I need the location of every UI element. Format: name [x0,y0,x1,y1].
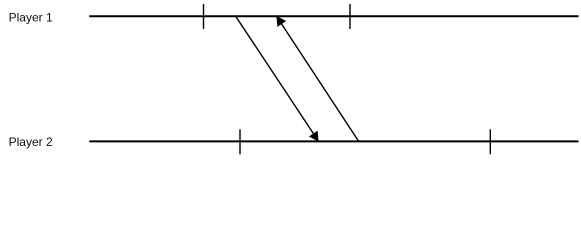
tick 2 on Player 1 timeline [349,4,351,29]
message arrow Player1 to Player2: shaft [236,16,319,141]
message arrow Player2 to Player1: shaft [277,16,359,141]
timeline Player 2 [89,140,578,142]
tick 1 on Player 2 timeline [239,129,241,154]
tick 1 on Player 1 timeline [203,4,205,29]
timeline Player 1 [89,15,578,17]
svg-text:Player 2: Player 2 [9,135,53,149]
svg-text:Player 1: Player 1 [9,11,53,25]
tick 2 on Player 2 timeline [489,129,491,154]
message arrow Player2 to Player1: arrowhead [276,16,286,27]
message arrow Player1 to Player2: arrowhead [309,131,319,142]
